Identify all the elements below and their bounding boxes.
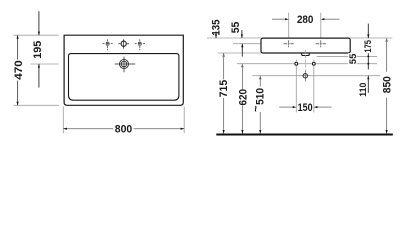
- dimension 800 line: [63, 128, 184, 130]
- fixing hole right: [311, 60, 316, 68]
- fixing mark left (+): [284, 40, 294, 47]
- extension line drain outlet bottom: [317, 55, 378, 57]
- svg-text:135: 135: [211, 20, 223, 36]
- dimension 55 right text: [348, 53, 357, 64]
- centre line (dashed): [304, 50, 306, 82]
- fixing mark right (+): [316, 40, 326, 47]
- dimension 280 extension lines: [288, 13, 290, 38]
- dimension 280 line: [272, 18, 340, 20]
- tap hole left (pre-punched): [102, 39, 112, 50]
- svg-text:55: 55: [348, 53, 359, 64]
- svg-text:150: 150: [298, 102, 313, 114]
- svg-text:55: 55: [230, 22, 242, 34]
- svg-text:110: 110: [358, 83, 369, 97]
- dimension 195 bottom arrow: [38, 64, 40, 88]
- extension line slab bottom left: [217, 52, 261, 54]
- extension line bottom edge: [14, 104, 60, 106]
- dimension 850: [386, 38, 388, 134]
- svg-text:800: 800: [115, 124, 133, 136]
- extension line slab top right: [350, 37, 392, 39]
- svg-text:175: 175: [363, 39, 374, 52]
- tap hole right (pre-punched): [135, 39, 145, 50]
- dimension 175: [367, 24, 369, 70]
- washbasin slab (front view): [261, 38, 350, 53]
- dimension 110: [367, 76, 369, 93]
- fixing hole left: [294, 60, 299, 68]
- dimension ~510: [259, 76, 261, 134]
- extension line drain axis: [31, 63, 59, 65]
- svg-text:620: 620: [238, 89, 250, 106]
- extension line waste axis: [252, 75, 380, 77]
- extension line fixing holes: [237, 63, 377, 65]
- dimension 620: [241, 64, 243, 134]
- dimension 175 text: [364, 40, 372, 54]
- svg-text:195: 195: [32, 41, 44, 59]
- svg-text:280: 280: [297, 14, 314, 26]
- svg-text:850: 850: [382, 76, 394, 93]
- basin bowl (top view): [69, 54, 179, 101]
- drain outlet (front view): [301, 53, 309, 55]
- svg-text:470: 470: [13, 60, 25, 80]
- dimension 150 line: [279, 106, 331, 108]
- waste hole: [302, 71, 309, 81]
- floor line: [216, 134, 392, 136]
- dimension 470 line: [17, 35, 19, 105]
- extension line slab top left: [207, 37, 261, 39]
- dimension 150 extension lines: [295, 66, 297, 112]
- svg-text:510: 510: [255, 88, 267, 105]
- basin outer rim (top view): [64, 35, 183, 105]
- tap hole centre: [118, 39, 129, 48]
- dimension 800 extension lines: [62, 107, 64, 134]
- svg-text:~: ~: [251, 105, 263, 112]
- dimension 715: [223, 53, 225, 134]
- dimension 55 left: [241, 30, 244, 57]
- dimension 135: [215, 32, 217, 39]
- dimension 195 top arrow: [38, 11, 40, 35]
- svg-text:715: 715: [218, 80, 230, 98]
- extension line top edge: [14, 34, 59, 36]
- extension line tap axis left: [233, 43, 261, 45]
- drain (top view): [115, 57, 136, 73]
